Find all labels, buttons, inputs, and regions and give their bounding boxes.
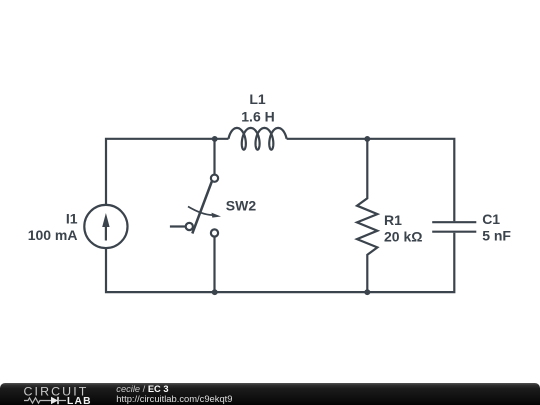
logo resistor symbol [24, 398, 51, 403]
node junction top-switch [212, 136, 218, 142]
logo wire to LAB [58, 400, 66, 402]
svg-text:100 mA: 100 mA [28, 227, 78, 243]
node junction bottom-switch [212, 289, 218, 295]
wire switch common stub [170, 225, 186, 227]
svg-text:5 nF: 5 nF [482, 227, 511, 243]
SW2 terminal common [186, 223, 193, 230]
svg-text:C1: C1 [482, 211, 500, 227]
wire bottom rail [106, 233, 454, 292]
svg-text:I1: I1 [66, 211, 78, 227]
I1 arrow shaft [105, 222, 107, 241]
node junction top-R1 [364, 136, 370, 142]
CircuitLab logo [0, 383, 110, 405]
svg-text:LAB: LAB [67, 396, 92, 405]
inductor L1 [229, 128, 287, 150]
svg-text:L1: L1 [249, 91, 266, 107]
svg-text:1.6 H: 1.6 H [241, 109, 274, 125]
current source I1 [84, 205, 127, 248]
footer url text [116, 394, 232, 403]
SW2 terminal pin 2 (bottom throw) [211, 229, 218, 236]
SW2 terminal pin 1 (top throw) [211, 175, 218, 182]
wire top-right segment (inductor to C1) [287, 139, 455, 221]
I1 arrowhead [102, 213, 109, 227]
logo diode cathode bar [57, 397, 59, 404]
C1 top plate [432, 221, 476, 223]
svg-text:R1: R1 [384, 212, 402, 228]
svg-text:SW2: SW2 [226, 198, 257, 214]
node junction bottom-R1 [364, 289, 370, 295]
wire top-left segment (node A to inductor) [106, 139, 229, 205]
SW2 actuation arc [188, 207, 213, 216]
footer title text [116, 385, 168, 394]
resistor R1 [357, 139, 377, 292]
footer bar [0, 383, 540, 405]
switch SW2 [186, 175, 221, 237]
C1 bottom plate [432, 231, 476, 233]
wire switch bottom lead [213, 237, 215, 293]
SW2 lever [192, 182, 212, 234]
SW2 actuation arrowhead [212, 213, 222, 218]
capacitor C1 [432, 222, 476, 232]
wire switch top lead [213, 139, 215, 175]
logo diode symbol [51, 397, 58, 404]
I1 body circle [84, 205, 127, 248]
svg-text:20 kΩ: 20 kΩ [384, 229, 422, 245]
